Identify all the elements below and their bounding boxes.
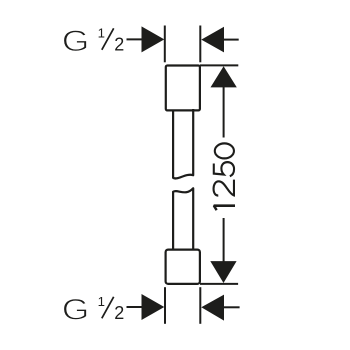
svg-text:1: 1	[98, 26, 105, 41]
svg-text:2: 2	[114, 34, 124, 54]
digit 0	[215, 143, 234, 158]
dimension arrow bottom-left	[127, 294, 165, 320]
svg-text:G: G	[62, 25, 90, 58]
extension line for 1250 top	[200, 64, 238, 66]
svg-text:1: 1	[98, 294, 105, 309]
hose nut bottom	[166, 250, 200, 284]
hose tube upper segment	[173, 109, 193, 178]
dimension line lower segment	[223, 218, 225, 262]
hose tube lower segment	[173, 188, 193, 250]
svg-text:G: G	[62, 294, 90, 327]
extension line bottom-left	[164, 287, 166, 324]
extension line bottom-right	[199, 287, 201, 324]
digit 2	[214, 180, 234, 196]
dimension arrow top-right	[201, 27, 238, 53]
dimension arrow up (1250)	[211, 66, 237, 87]
dimension text 1250	[214, 143, 235, 210]
digit 5	[214, 162, 234, 176]
dimension arrow bottom-right	[201, 295, 239, 321]
digit 1	[214, 206, 235, 210]
extension line top-left	[164, 26, 166, 63]
dimension arrow down (1250)	[210, 261, 236, 283]
extension line top-right	[199, 26, 201, 63]
dimension line upper segment	[223, 87, 225, 138]
svg-text:2: 2	[114, 303, 124, 323]
hose nut top	[166, 66, 200, 111]
extension line for 1250 bottom	[200, 283, 238, 285]
dimension arrow top-left	[127, 26, 165, 52]
